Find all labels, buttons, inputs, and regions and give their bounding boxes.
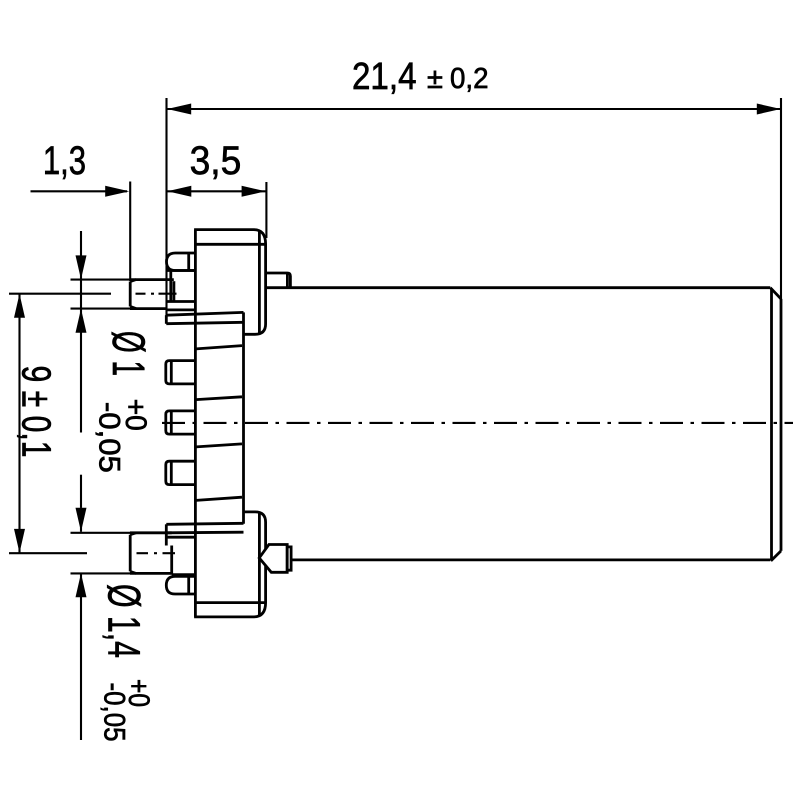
dimension 21,4 ±0,2 top <box>167 56 782 299</box>
svg-text:3,5: 3,5 <box>190 139 242 183</box>
dimension Ø1,4 +0/-0,05 bottom pin <box>71 508 156 742</box>
contact pin 1 <box>166 361 195 384</box>
bottom pin boss <box>167 537 195 574</box>
svg-text:9 ± 0,1: 9 ± 0,1 <box>14 366 60 458</box>
main axis centerline <box>162 422 793 424</box>
dimension 9 ±0,1 left <box>9 294 111 554</box>
insulator step lines <box>196 346 242 501</box>
bottom locator bump <box>166 576 194 594</box>
bottom step plate <box>166 523 243 545</box>
contact pin 3 <box>166 461 195 484</box>
svg-text:-0,05: -0,05 <box>93 402 126 473</box>
top tab <box>267 273 291 288</box>
svg-text:21,4: 21,4 <box>352 56 417 98</box>
svg-text:Ø 1: Ø 1 <box>103 331 154 376</box>
svg-text:±: ± <box>427 63 443 95</box>
top pin boss <box>167 271 195 310</box>
top step plate <box>166 312 243 323</box>
contact pin 2 <box>166 411 195 434</box>
flange top lobe <box>194 230 266 335</box>
svg-text:-0,05: -0,05 <box>97 683 130 742</box>
dimension Ø1 +0/-0,05 top pin <box>71 231 155 508</box>
flange face <box>194 230 197 617</box>
cylinder body <box>267 288 781 561</box>
long extension/edge line at x166.5 <box>165 230 167 324</box>
top locator bump <box>167 253 195 271</box>
svg-text:1,3: 1,3 <box>43 139 86 183</box>
insulator right edge <box>242 312 245 523</box>
top solder pin Ø1 <box>130 280 177 309</box>
flange bottom lobe <box>194 512 266 617</box>
svg-text:Ø 1,4: Ø 1,4 <box>99 584 150 658</box>
dimension 1,3 <box>31 139 131 281</box>
dimension 3,5 <box>167 139 266 238</box>
bottom solder pin Ø1,4 <box>130 533 175 574</box>
svg-text:0,2: 0,2 <box>450 63 489 95</box>
bottom tab with V-notch <box>259 545 291 573</box>
